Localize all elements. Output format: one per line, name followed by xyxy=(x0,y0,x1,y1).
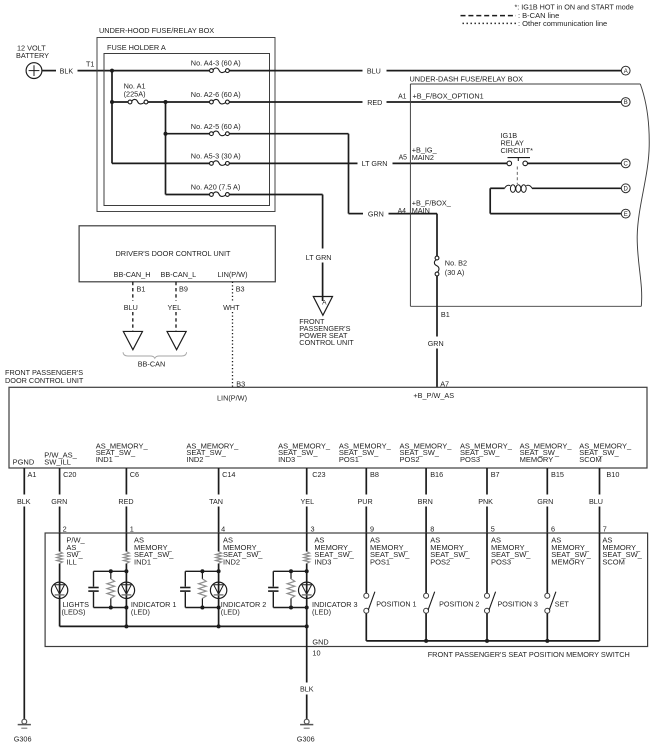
wire LED ground rail xyxy=(60,625,307,627)
pin A1 +B_F/BOX_OPTION1 xyxy=(398,91,484,100)
pin LIN(P/W) label xyxy=(218,270,248,279)
pin 10 label xyxy=(312,649,320,658)
svg-text:+B_F/BOX_OPTION1: +B_F/BOX_OPTION1 xyxy=(413,91,484,100)
svg-text:2: 2 xyxy=(63,525,67,534)
svg-text:LIN(P/W): LIN(P/W) xyxy=(218,270,248,279)
resistor IND2 series xyxy=(216,552,222,564)
terminal C xyxy=(621,159,630,168)
svg-text:ILL: ILL xyxy=(66,558,76,567)
label BB-CAN xyxy=(138,359,166,368)
svg-text:D: D xyxy=(624,187,629,193)
node IND1 bottom junctions xyxy=(109,606,113,610)
pin AS_MEMORY_SEAT_SW_POS1 label xyxy=(339,442,392,464)
pin B1 label driver unit xyxy=(137,284,146,293)
node junction A1 fuse left xyxy=(110,100,114,104)
pin AS_MEMORY_SEAT_SW_IND3 label xyxy=(278,442,331,464)
svg-text:IND3: IND3 xyxy=(278,455,295,464)
node IND2 bottom junctions xyxy=(200,606,204,610)
fuse No.A1 225A xyxy=(112,82,166,104)
wire coil return to terminal E xyxy=(490,188,621,213)
wire SET column vertical xyxy=(546,533,548,641)
resistor IND1 parallel xyxy=(107,571,115,607)
wire IND3 column vertical xyxy=(306,533,308,626)
under-dash fuse/relay box xyxy=(410,75,650,307)
pin AS_MEMORY_SEAT_SW_IND1 label xyxy=(96,442,149,464)
svg-text:1: 1 xyxy=(130,525,134,534)
svg-text:B8: B8 xyxy=(370,470,379,479)
svg-text:3: 3 xyxy=(311,525,315,534)
svg-text:(30 A): (30 A) xyxy=(445,268,464,277)
svg-text:CIRCUIT*: CIRCUIT* xyxy=(501,146,534,155)
wire LIN dotted WHT xyxy=(223,282,240,388)
pin GND label xyxy=(312,637,328,646)
terminator triangle BB-CAN L xyxy=(167,331,186,349)
label AS_MEMORY_SEAT_SW_IND2 inside switch xyxy=(223,536,263,567)
wire RC bottom rail IND1 xyxy=(94,607,127,609)
pin 4 label memory switch xyxy=(221,525,225,534)
svg-text:YEL: YEL xyxy=(301,497,315,506)
svg-text:RED: RED xyxy=(367,98,382,107)
svg-text:DRIVER'S DOOR CONTROL UNIT: DRIVER'S DOOR CONTROL UNIT xyxy=(116,249,231,258)
wire label GRN xyxy=(368,209,384,218)
svg-text:A1: A1 xyxy=(28,470,37,479)
pin 1 label memory switch xyxy=(130,525,134,534)
wire IND2 column vertical xyxy=(218,533,220,626)
svg-text:GRN: GRN xyxy=(428,339,444,348)
svg-text:(LEDS): (LEDS) xyxy=(62,607,86,616)
svg-text:MEMORY: MEMORY xyxy=(520,455,554,464)
wire POSITION 2 column vertical xyxy=(425,533,427,641)
svg-text:4: 4 xyxy=(221,525,225,534)
wire switch common rail xyxy=(366,640,599,642)
pin B3 label at door control unit xyxy=(236,379,245,388)
svg-text:IND2: IND2 xyxy=(186,455,203,464)
node junction A1 fuse right xyxy=(164,100,168,104)
wire RC bottom rail IND3 xyxy=(273,607,306,609)
label AS_MEMORY_SEAT_SW_IND3 inside switch xyxy=(314,536,354,567)
wire IND2 C14 TAN xyxy=(209,468,223,533)
wire POS2 B16 BRN xyxy=(418,468,433,533)
wire fuse B2 to pin B1 xyxy=(436,276,438,337)
pin C20 label xyxy=(63,470,76,479)
node IND2 top junctions xyxy=(200,569,204,573)
node switch rail junction POS2 xyxy=(424,639,428,643)
svg-text:E: E xyxy=(624,212,628,218)
label AS_MEMORY_SEAT_SW_IND1 inside switch xyxy=(134,536,174,567)
capacitor IND3 xyxy=(268,571,278,607)
switch POSITION 2 xyxy=(424,592,480,614)
node junction A2-5 tap xyxy=(164,132,168,136)
wire RC top rail IND2 xyxy=(185,570,218,572)
svg-text:BLU: BLU xyxy=(367,66,381,75)
svg-text:POSITION 2: POSITION 2 xyxy=(439,599,479,608)
node junction T1 bus xyxy=(110,69,114,73)
wire POSITION 1 column vertical xyxy=(365,533,367,641)
pin 7 label memory switch xyxy=(603,525,607,534)
terminal T1 xyxy=(86,59,94,68)
pin A4 +B_F/BOX_MAIN xyxy=(398,198,452,214)
svg-text:BLU: BLU xyxy=(124,303,138,312)
node IND1 top junctions xyxy=(109,569,113,573)
ground G306 right xyxy=(297,719,315,743)
svg-text:POS1: POS1 xyxy=(370,558,390,567)
wire label LT GRN xyxy=(362,159,388,168)
svg-text:LT GRN: LT GRN xyxy=(362,159,388,168)
svg-text:RED: RED xyxy=(118,497,133,506)
pin B16 label xyxy=(430,470,443,479)
svg-text:IND3: IND3 xyxy=(314,558,331,567)
wire RC top rail IND1 xyxy=(94,570,127,572)
svg-text:No. A5-3 (30 A): No. A5-3 (30 A) xyxy=(191,152,241,161)
wire RED to pin A1 and terminal B xyxy=(387,101,622,103)
svg-text:BB-CAN: BB-CAN xyxy=(138,359,166,368)
pin B8 label xyxy=(370,470,379,479)
wire label RED xyxy=(367,98,382,107)
svg-text:SCOM: SCOM xyxy=(602,558,625,567)
wire relay contact to terminal C xyxy=(528,162,622,164)
terminator triangle BB-CAN H xyxy=(123,331,142,349)
resistor IND3 series xyxy=(304,552,310,564)
wire BLU to terminal A xyxy=(387,70,622,72)
pin +B_P/W_AS label inside xyxy=(413,391,454,400)
pin 6 label memory switch xyxy=(551,525,555,534)
node IND3 bottom junctions xyxy=(289,606,293,610)
wire bus vertical middle xyxy=(166,102,210,195)
wire GRN to pin A4 xyxy=(389,213,438,215)
svg-text:B3: B3 xyxy=(236,284,245,293)
svg-text:(LED): (LED) xyxy=(131,607,150,616)
svg-text:BB-CAN_L: BB-CAN_L xyxy=(161,270,197,279)
capacitor IND2 xyxy=(180,571,190,607)
svg-text:C20: C20 xyxy=(63,470,76,479)
wire row A4-3 to BLU xyxy=(229,70,362,72)
svg-text:B9: B9 xyxy=(179,284,188,293)
node LED rail junction IND3 xyxy=(305,624,309,628)
svg-text:UNDER-DASH FUSE/RELAY BOX: UNDER-DASH FUSE/RELAY BOX xyxy=(410,75,524,84)
svg-text:LT GRN: LT GRN xyxy=(306,253,332,262)
pin B7 label xyxy=(491,470,500,479)
svg-text:B: B xyxy=(624,100,628,106)
label AS_MEMORY_SEAT_SW_MEMORY inside switch xyxy=(551,536,591,567)
capacitor IND1 xyxy=(88,571,98,607)
wire B-CAN L dashed YEL xyxy=(168,282,182,332)
svg-text:5: 5 xyxy=(491,525,495,534)
wire GND down from memory switch xyxy=(306,626,308,682)
label AS_MEMORY_SEAT_SW_POS3 inside switch xyxy=(491,536,531,567)
node LED rail junction IND2 xyxy=(217,624,221,628)
node IND3 top junctions xyxy=(289,569,293,573)
pin 2 label memory switch xyxy=(63,525,67,534)
svg-text:T1: T1 xyxy=(86,59,94,68)
wire battery to fuse box BLK xyxy=(42,66,210,75)
svg-text:POSITION 3: POSITION 3 xyxy=(498,599,538,608)
svg-text:WHT: WHT xyxy=(223,303,240,312)
svg-text:B7: B7 xyxy=(491,470,500,479)
svg-text:SW_ILL: SW_ILL xyxy=(44,457,71,466)
wire SCOM B10 BLU xyxy=(589,468,603,533)
wire LT GRN to pin A5 relay xyxy=(393,162,508,164)
pin A5 +B_IG_MAIN2 xyxy=(399,146,438,162)
svg-text:BRN: BRN xyxy=(418,497,433,506)
node LED rail junction IND1 xyxy=(124,624,128,628)
connector triangle A to power seat control unit xyxy=(313,297,332,316)
svg-text:C14: C14 xyxy=(222,470,235,479)
wire row A5-3 to LT GRN xyxy=(229,162,357,164)
svg-text:POS1: POS1 xyxy=(339,455,359,464)
node switch rail junction POS3 xyxy=(485,639,489,643)
wire ILL C20 GRN xyxy=(51,468,67,533)
wire row A2-6 to RED xyxy=(229,101,362,103)
label AS_MEMORY_SEAT_SW_POS1 inside switch xyxy=(370,536,410,567)
front passenger's door control unit box xyxy=(5,368,647,468)
ground G306 left xyxy=(14,719,32,743)
fuse No.A4-3 60A xyxy=(191,59,241,73)
svg-text:POS2: POS2 xyxy=(430,558,450,567)
LED LIGHTS (LEDS) xyxy=(51,582,89,616)
wire PGND A1 BLK xyxy=(17,468,31,720)
pin C6 label xyxy=(130,470,139,479)
svg-text:10: 10 xyxy=(312,649,320,658)
brace BB-CAN group xyxy=(123,352,187,358)
wire SCOM column vertical xyxy=(599,533,601,641)
label front passenger power seat control unit xyxy=(299,317,354,347)
svg-text:SCOM: SCOM xyxy=(579,455,602,464)
wire label GRN vertical xyxy=(428,339,444,348)
svg-text:GRN: GRN xyxy=(51,497,67,506)
svg-text:8: 8 xyxy=(430,525,434,534)
pin LIN(P/W) label inside xyxy=(217,394,247,403)
wire RC bottom rail IND2 xyxy=(185,607,218,609)
switch POSITION 1 xyxy=(364,592,417,614)
pin A1 label xyxy=(28,470,37,479)
svg-text:G306: G306 xyxy=(297,734,315,743)
pin C23 label xyxy=(312,470,325,479)
svg-text:9: 9 xyxy=(370,525,374,534)
pin PGND label xyxy=(13,457,35,466)
wire label BLK bottom xyxy=(300,685,314,694)
svg-text:6: 6 xyxy=(551,525,555,534)
svg-text:PGND: PGND xyxy=(13,457,35,466)
svg-text:POS3: POS3 xyxy=(491,558,511,567)
label front passenger's seat position memory switch xyxy=(428,650,630,659)
svg-text:POS3: POS3 xyxy=(460,455,480,464)
pin 9 label memory switch xyxy=(370,525,374,534)
wire POSITION 3 column vertical xyxy=(486,533,488,641)
svg-text:MAIN: MAIN xyxy=(412,206,430,215)
svg-text:UNDER-HOOD FUSE/RELAY BOX: UNDER-HOOD FUSE/RELAY BOX xyxy=(99,26,214,35)
svg-text:LIN(P/W): LIN(P/W) xyxy=(217,394,247,403)
svg-text:PUR: PUR xyxy=(358,497,373,506)
resistor ILL xyxy=(57,552,63,564)
label AS_MEMORY_SEAT_SW_POS2 inside switch xyxy=(430,536,470,567)
fuse holder A box xyxy=(104,43,270,206)
svg-text:B1: B1 xyxy=(137,284,146,293)
wire POS3 B7 PNK xyxy=(478,468,493,533)
svg-text:B16: B16 xyxy=(430,470,443,479)
svg-text:GND: GND xyxy=(312,637,328,646)
svg-text:No. A2-6 (60 A): No. A2-6 (60 A) xyxy=(191,90,241,99)
svg-text:+B_P/W_AS: +B_P/W_AS xyxy=(413,391,454,400)
pin AS_MEMORY_SEAT_SW_SCOM label xyxy=(579,442,632,464)
svg-text:IND2: IND2 xyxy=(223,558,240,567)
wire ILL column vertical xyxy=(59,533,61,626)
pin A7 label xyxy=(440,380,449,389)
svg-text:B10: B10 xyxy=(606,470,619,479)
pin B1 label xyxy=(441,310,450,319)
svg-text:No. A20 (7.5 A): No. A20 (7.5 A) xyxy=(191,183,241,192)
pin AS_MEMORY_SEAT_SW_POS2 label xyxy=(400,442,453,464)
svg-text:(LED): (LED) xyxy=(312,607,331,616)
svg-text:A1: A1 xyxy=(398,93,407,100)
wire BLK to ground G306 right xyxy=(306,695,308,720)
svg-text:CONTROL UNIT: CONTROL UNIT xyxy=(299,338,354,347)
pin 8 label memory switch xyxy=(430,525,434,534)
wire IND1 column vertical xyxy=(125,533,127,626)
svg-text:(LED): (LED) xyxy=(221,607,240,616)
pin C14 label xyxy=(222,470,235,479)
svg-text:: Other communication line: : Other communication line xyxy=(518,19,607,28)
svg-text:C23: C23 xyxy=(312,470,325,479)
legend other communication line sample xyxy=(463,19,608,28)
svg-text:MEMORY: MEMORY xyxy=(551,558,585,567)
fuse No.A20 7.5A xyxy=(191,183,241,197)
svg-text:7: 7 xyxy=(603,525,607,534)
resistor IND1 series xyxy=(124,552,130,564)
wire label LT GRN vertical xyxy=(306,253,332,262)
legend B-CAN line sample xyxy=(461,11,560,20)
legend note IG1B xyxy=(514,3,633,12)
fuse No.A5-3 30A xyxy=(191,152,241,166)
svg-text:DOOR CONTROL UNIT: DOOR CONTROL UNIT xyxy=(5,376,84,385)
wire MEMORY B15 GRN xyxy=(537,468,553,533)
svg-text:BLK: BLK xyxy=(17,497,31,506)
pin B15 label xyxy=(551,470,564,479)
resistor IND2 parallel xyxy=(199,571,207,607)
relay coil xyxy=(505,185,532,193)
svg-text:A5: A5 xyxy=(399,154,408,161)
fuse No.B2 30A xyxy=(434,256,467,277)
svg-text:No. B2: No. B2 xyxy=(445,259,467,268)
wire IND1 C6 RED xyxy=(118,468,133,533)
svg-text:C: C xyxy=(624,162,629,168)
pin 3 label memory switch xyxy=(311,525,315,534)
LED INDICATOR 2 xyxy=(210,582,266,616)
svg-text:MAIN2: MAIN2 xyxy=(412,153,434,162)
relay contact switch xyxy=(507,158,530,166)
pin AS_MEMORY_SEAT_SW_IND2 label xyxy=(186,442,239,464)
svg-text:GRN: GRN xyxy=(368,209,384,218)
fuse No.A2-6 60A xyxy=(166,90,241,104)
wire POS1 B8 PUR xyxy=(358,468,373,533)
svg-text:No. A4-3 (60 A): No. A4-3 (60 A) xyxy=(191,59,241,68)
resistor IND3 parallel xyxy=(287,571,295,607)
svg-text:G306: G306 xyxy=(14,734,32,743)
LED INDICATOR 3 xyxy=(299,582,358,616)
svg-text:BATTERY: BATTERY xyxy=(16,51,49,60)
wire coil to terminal D xyxy=(532,187,621,189)
wire RC top rail IND3 xyxy=(273,570,306,572)
under-hood fuse/relay box xyxy=(97,26,275,211)
node switch rail junction SET xyxy=(545,639,549,643)
svg-text:POSITION 1: POSITION 1 xyxy=(376,599,416,608)
pin P/W_AS_SW_ILL label xyxy=(44,451,77,467)
svg-text:YEL: YEL xyxy=(168,303,182,312)
pin BB-CAN_H label xyxy=(114,270,151,279)
wire LT GRN to connector A triangle xyxy=(322,263,324,302)
svg-text:A4: A4 xyxy=(398,208,407,215)
pin AS_MEMORY_SEAT_SW_POS3 label xyxy=(460,442,513,464)
wire B-CAN H dashed BLU xyxy=(124,282,138,332)
fuse No.A2-5 60A xyxy=(166,122,241,136)
svg-text:POS2: POS2 xyxy=(400,455,420,464)
LED INDICATOR 1 xyxy=(118,582,176,616)
svg-text:A: A xyxy=(322,299,327,306)
svg-text:SET: SET xyxy=(555,599,570,608)
svg-text:B15: B15 xyxy=(551,470,564,479)
svg-text:BLU: BLU xyxy=(589,497,603,506)
pin AS_MEMORY_SEAT_SW_MEMORY label xyxy=(520,442,573,464)
svg-text:BB-CAN_H: BB-CAN_H xyxy=(114,270,151,279)
wire label BLU xyxy=(367,66,381,75)
svg-text:IND1: IND1 xyxy=(96,455,113,464)
svg-text:BLK: BLK xyxy=(60,66,74,75)
switch SET xyxy=(545,592,570,614)
wire bus vertical left xyxy=(112,71,210,164)
label P/W_AS_SW_ILL inside switch xyxy=(66,536,85,567)
svg-text:FUSE HOLDER A: FUSE HOLDER A xyxy=(107,43,166,52)
front passenger's seat position memory switch box xyxy=(45,533,648,647)
driver's door control unit box xyxy=(79,226,275,282)
pin B9 label xyxy=(179,284,188,293)
relay IG1B label xyxy=(501,131,534,155)
terminal B xyxy=(621,98,630,107)
svg-text:GRN: GRN xyxy=(537,497,553,506)
terminal E xyxy=(621,209,630,218)
pin B10 label xyxy=(606,470,619,479)
svg-text:PNK: PNK xyxy=(478,497,493,506)
relay actuation dashed link xyxy=(516,167,518,185)
battery 12 VOLT BATTERY xyxy=(16,44,49,79)
svg-text:(225A): (225A) xyxy=(124,89,146,98)
wire row A20 down to LT GRN branch xyxy=(229,195,322,249)
svg-text:TAN: TAN xyxy=(209,497,223,506)
pin BB-CAN_L label xyxy=(161,270,197,279)
svg-text:A: A xyxy=(624,69,628,75)
terminal A xyxy=(621,66,630,75)
wire pin A4 down to fuse B2 xyxy=(436,214,438,257)
svg-text:IND1: IND1 xyxy=(134,558,151,567)
wire IND3 C23 YEL xyxy=(301,468,315,533)
svg-text:BLK: BLK xyxy=(300,685,314,694)
terminal D xyxy=(621,184,630,193)
svg-text:FRONT PASSENGER'S SEAT POSITIO: FRONT PASSENGER'S SEAT POSITION MEMORY S… xyxy=(428,650,630,659)
svg-text:No. A2-5 (60 A): No. A2-5 (60 A) xyxy=(191,122,241,131)
wire GRN to pin A7 xyxy=(436,349,438,388)
pin B3 label driver unit xyxy=(236,284,245,293)
pin 5 label memory switch xyxy=(491,525,495,534)
svg-text:C6: C6 xyxy=(130,470,139,479)
switch POSITION 3 xyxy=(485,592,538,614)
svg-text:B1: B1 xyxy=(441,310,450,319)
label AS_MEMORY_SEAT_SW_SCOM inside switch xyxy=(602,536,642,567)
wire row A2-5 to GRN corner xyxy=(229,134,363,214)
